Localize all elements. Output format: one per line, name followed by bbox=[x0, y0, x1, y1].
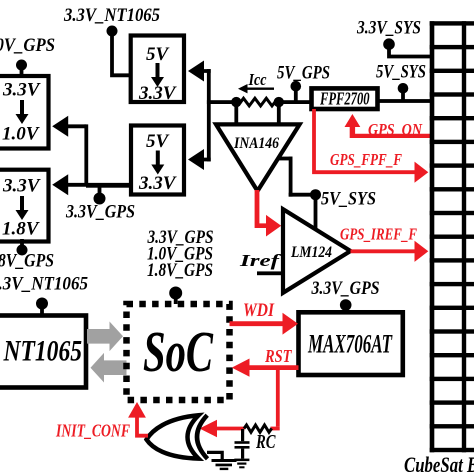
node 5V_SYS mid dot bbox=[310, 189, 321, 200]
XOR ground stub bbox=[207, 451, 224, 459]
wire stem 3.3V_GPS dot bbox=[98, 186, 102, 195]
wire INA146 right input stub bbox=[277, 102, 281, 127]
CubeSat bus connector middle rail bbox=[462, 21, 466, 452]
regulator C down arrow bbox=[151, 63, 164, 87]
svg-text:3.3V_GPS: 3.3V_GPS bbox=[65, 202, 135, 223]
wire 3.3V_GPS horizontal to regulator D bbox=[86, 184, 131, 188]
arrow into regulator D bbox=[188, 149, 211, 170]
wire shunt left segment bbox=[207, 100, 242, 104]
svg-text:3.3V: 3.3V bbox=[2, 80, 41, 101]
svg-text:INA146: INA146 bbox=[233, 135, 279, 152]
junction dot shunt left bbox=[231, 97, 241, 107]
CubeSat bus connector left rail bbox=[430, 21, 435, 452]
svg-text:1.8V_GPS: 1.8V_GPS bbox=[0, 251, 54, 272]
wire node to NT1065 bbox=[40, 304, 44, 317]
svg-text:GPS_IREF_F: GPS_IREF_F bbox=[340, 225, 417, 244]
svg-text:3.3V_NT1065: 3.3V_NT1065 bbox=[0, 274, 88, 295]
op-amp INA146 bbox=[216, 124, 300, 191]
svg-text:3.3V_SYS: 3.3V_SYS bbox=[356, 18, 421, 39]
svg-text:LM124: LM124 bbox=[290, 244, 332, 261]
ground under capacitor bbox=[234, 459, 249, 462]
signal RST wire bbox=[232, 359, 299, 427]
regulator B down arrow bbox=[16, 196, 29, 220]
load switch FPF2700 box bbox=[312, 88, 378, 109]
signal GPS_ON wire bbox=[345, 114, 431, 138]
wire INA146 left input stub bbox=[234, 102, 238, 127]
node 1.8V_GPS dot bbox=[17, 245, 28, 256]
node SoC rails dot bbox=[169, 287, 182, 300]
regulator B box 3.3V to 1.8V bbox=[0, 170, 49, 242]
op-amp LM124 bbox=[283, 209, 351, 293]
regulator C box 5V to 3.3V upper bbox=[131, 36, 184, 103]
svg-text:3.3V: 3.3V bbox=[138, 173, 177, 194]
wire INA146 to 5V_SYS node vertical bbox=[289, 157, 293, 197]
IC NT1065 box bbox=[0, 316, 86, 388]
regulator A down arrow bbox=[16, 100, 29, 124]
resistor RC zigzag bbox=[244, 425, 272, 432]
XOR gate second arc bbox=[197, 415, 207, 459]
wire FPF2700 to bus bbox=[377, 99, 430, 103]
signal RC node red wire bbox=[200, 420, 280, 437]
svg-text:5V_SYS: 5V_SYS bbox=[321, 189, 376, 210]
svg-text:CubeSat Bus: CubeSat Bus bbox=[404, 452, 474, 474]
signal INIT_CONF wire bbox=[128, 402, 148, 438]
svg-text:1.8V_GPS: 1.8V_GPS bbox=[147, 260, 213, 281]
node 5V_GPS dot bbox=[291, 81, 302, 92]
wire 5V_GPS stem bbox=[294, 87, 298, 102]
regulator D down arrow bbox=[151, 151, 164, 175]
svg-text:3.3V_NT1065: 3.3V_NT1065 bbox=[63, 5, 160, 26]
node 3.3V_NT1065 top dot bbox=[107, 26, 118, 37]
CubeSat bus connector rungs bbox=[430, 21, 474, 452]
junction dot shunt right bbox=[274, 97, 284, 107]
wire 5V_SYS top stem bbox=[401, 88, 405, 101]
signal INA146 output red wire bbox=[255, 190, 282, 237]
wire 3.3V_SYS to bus bbox=[387, 44, 430, 58]
svg-text:1.0V: 1.0V bbox=[2, 124, 40, 145]
svg-text:3.3V: 3.3V bbox=[2, 176, 41, 197]
svg-text:NT1065: NT1065 bbox=[3, 335, 82, 368]
capacitor C plates bbox=[235, 441, 250, 444]
svg-text:WDI: WDI bbox=[243, 300, 274, 321]
XOR gate body bbox=[147, 415, 199, 458]
wire MAX stem bbox=[344, 305, 348, 313]
wire Iref stub bbox=[257, 271, 283, 275]
svg-text:MAX706AT: MAX706AT bbox=[307, 330, 392, 359]
svg-text:5V_GPS: 5V_GPS bbox=[277, 63, 330, 84]
wire regulator B to node bbox=[20, 239, 24, 250]
node 3.3V_GPS dot bbox=[94, 193, 106, 205]
svg-text:INIT_CONF: INIT_CONF bbox=[55, 421, 130, 441]
svg-text:SoC: SoC bbox=[143, 319, 214, 384]
signal WDI wire bbox=[230, 313, 299, 335]
supervisor MAX706AT box bbox=[299, 312, 403, 375]
svg-text:GPS_ON: GPS_ON bbox=[368, 120, 423, 139]
gray bus arrow left SoC to NT1065 bbox=[91, 353, 127, 383]
regulator D box 5V to 3.3V lower bbox=[131, 126, 184, 195]
signal GPS_FPF_F wire bbox=[312, 109, 428, 183]
svg-text:3.3V_GPS: 3.3V_GPS bbox=[311, 278, 380, 299]
node 3.3V_GPS MAX dot bbox=[340, 299, 352, 311]
svg-text:Icc: Icc bbox=[248, 70, 267, 89]
svg-text:5V: 5V bbox=[146, 131, 170, 152]
node 3.3V_NT1065 lower dot bbox=[36, 298, 48, 310]
svg-text:5V_SYS: 5V_SYS bbox=[376, 62, 426, 83]
capacitor ground stem bbox=[241, 449, 244, 459]
regulator A box 3.3V to 1.0V bbox=[0, 76, 49, 149]
node 3.3V_SYS dot bbox=[383, 38, 395, 50]
arrow into regulator B bbox=[52, 174, 130, 195]
svg-text:5V: 5V bbox=[146, 44, 170, 65]
wire to 5V_SYS dot bbox=[289, 193, 316, 197]
wire 5V_SYS to LM124 bbox=[314, 195, 318, 231]
wire 5V bus vertical bbox=[207, 69, 211, 161]
svg-text:GPS_FPF_F: GPS_FPF_F bbox=[330, 150, 402, 169]
svg-text:1.8V: 1.8V bbox=[2, 219, 40, 240]
svg-text:RC: RC bbox=[255, 431, 276, 453]
svg-text:Iref: Iref bbox=[239, 251, 283, 270]
ground under XOR bbox=[212, 459, 237, 462]
node 1.0V_GPS dot bbox=[16, 60, 27, 71]
svg-text:RST: RST bbox=[264, 346, 292, 366]
arrow into regulator C bbox=[188, 61, 211, 82]
Icc current arrow bbox=[246, 88, 275, 90]
svg-text:1.0V_GPS: 1.0V_GPS bbox=[0, 35, 55, 56]
arrow into regulator A bbox=[52, 116, 86, 137]
signal GPS_IREF_F wire bbox=[351, 241, 429, 262]
svg-text:FPF2700: FPF2700 bbox=[319, 88, 369, 108]
capacitor C stem bbox=[241, 429, 244, 441]
wire shunt right to FPF2700 bbox=[276, 100, 312, 104]
wire SoC rails stem bbox=[174, 293, 178, 304]
wire INA146 to 5V_SYS node horizontal tap bbox=[278, 157, 293, 161]
SoC dotted box bbox=[127, 304, 230, 400]
gray bus arrow right NT1065 to SoC bbox=[87, 322, 123, 352]
shunt resistor Icc bbox=[241, 98, 276, 106]
wire top node to regulator C bbox=[110, 31, 130, 77]
svg-text:3.3V: 3.3V bbox=[138, 83, 177, 104]
wire vertical branch to regulator A bbox=[84, 124, 88, 185]
node 5V_SYS top dot bbox=[398, 83, 409, 94]
wire node to regulator A bbox=[20, 65, 24, 76]
